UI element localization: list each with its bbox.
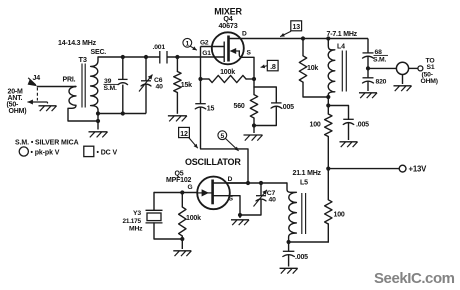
transistor Q4 channel bar (227, 36, 230, 62)
ground under Q5 source (231, 219, 249, 221)
svg-text:100k: 100k (186, 215, 201, 222)
svg-text:SeekIC.com: SeekIC.com (374, 270, 455, 287)
wire G2 lead (201, 46, 225, 48)
ground under T3 (89, 131, 108, 133)
node L5 bottom (287, 240, 291, 244)
wire 68 to junction (367, 57, 369, 69)
terminal +13V (399, 165, 406, 172)
svg-text:+13V: +13V (409, 165, 428, 174)
ground at J4 (47, 102, 49, 104)
wire jack to tip (409, 67, 418, 69)
connector J4 shield dashed line (36, 88, 38, 101)
svg-text:• pk-pk V: • pk-pk V (31, 150, 60, 157)
legend DC symbol (84, 146, 94, 156)
wire gate rail (154, 192, 197, 194)
node marker .8 boxed (267, 60, 278, 70)
ground under 820 (359, 92, 377, 94)
transistor Q5 body (197, 177, 230, 210)
wire C7 top lead (260, 183, 262, 196)
svg-text:40673: 40673 (219, 21, 238, 30)
inductor L5 (287, 183, 296, 242)
wire bias to ground (253, 126, 255, 134)
wire crystal bottom lead (154, 223, 182, 239)
svg-text:J4: J4 (33, 75, 41, 82)
svg-text:1: 1 (186, 41, 190, 48)
node T3 secondary bottom (96, 111, 100, 115)
svg-text:5: 5 (221, 133, 225, 140)
transistor Q5 channel bar (211, 180, 214, 205)
wire to ground osc (181, 239, 183, 249)
wire T3 bottom to ground (97, 114, 99, 130)
node L4 bottom (326, 95, 330, 99)
transistor Q5 drain lead (213, 182, 248, 184)
resistor 100k mixer (209, 75, 246, 82)
svg-text:39: 39 (104, 78, 112, 85)
transformer T3 primary winding (68, 86, 98, 121)
node bias bottom (252, 123, 256, 127)
wire Q5 source to ground (239, 215, 241, 218)
wire injection column lower (201, 107, 249, 183)
resistor 100k osc (181, 193, 183, 208)
transformer L4 core (341, 51, 343, 92)
wire C6 bottom lead (145, 84, 147, 113)
svg-text:OHM): OHM) (9, 108, 27, 115)
node 15k top (175, 55, 179, 59)
node 39 cap bottom (121, 111, 125, 115)
wire L5 bottom rail (289, 241, 329, 243)
wire secondary top rail (98, 56, 160, 58)
transistor Q5 gate arrow (197, 192, 212, 194)
wire 13V rail (328, 168, 399, 170)
node injection takeoff (246, 181, 250, 185)
capacitor C6 40 variable (141, 80, 151, 82)
node marker 12 boxed (179, 127, 190, 137)
svg-text:MPF102: MPF102 (166, 177, 192, 184)
svg-text:.005: .005 (281, 104, 294, 111)
svg-text:7-7.1 MHz: 7-7.1 MHz (327, 31, 358, 38)
node crystal bottom junction (180, 237, 184, 241)
transistor Q4 body (212, 32, 244, 64)
node mixer source junction (252, 77, 256, 81)
svg-text:.005: .005 (356, 121, 369, 128)
svg-text:L5: L5 (300, 180, 308, 187)
ground under L5 bypass (280, 267, 298, 269)
svg-text:820: 820 (376, 78, 387, 85)
svg-text:G1: G1 (202, 50, 211, 57)
resistor 10k (302, 39, 304, 56)
wire rail corner to 68 (367, 39, 369, 53)
node output junction (366, 66, 370, 70)
connector output jack (396, 62, 408, 74)
node Q5 source ground junction (238, 213, 242, 217)
wire .005 osc to ground (288, 255, 290, 267)
svg-text:S.M.: S.M. (373, 56, 386, 63)
resistor 15k (176, 57, 178, 72)
svg-text:S1: S1 (427, 64, 435, 71)
wire L5 bypass lead (288, 242, 290, 251)
node 100k left (198, 77, 202, 81)
svg-text:OSCILLATOR: OSCILLATOR (185, 157, 241, 167)
wire .005 supply to ground (348, 123, 350, 140)
connector J4 plug arrow (28, 78, 36, 85)
capacitor .001 (159, 51, 161, 64)
svg-text:15k: 15k (181, 82, 192, 89)
transistor Q4 source arrow (233, 50, 240, 52)
ground under .005 supply (339, 141, 357, 143)
wire tank bottom rail (98, 113, 146, 115)
svg-text:40: 40 (269, 196, 277, 203)
wire 39 cap bottom lead (122, 85, 124, 114)
connector J4 shield arrow (28, 101, 48, 103)
capacitor .005 mixer (271, 102, 282, 104)
wire bias top branch (254, 87, 276, 103)
svg-text:12: 12 (180, 131, 188, 138)
svg-text:100: 100 (334, 212, 345, 219)
capacitor C7 40 variable (256, 195, 266, 197)
node 13V junction (326, 167, 330, 171)
svg-text:15: 15 (207, 105, 215, 112)
wire crystal top lead (153, 193, 155, 211)
svg-text:S.M.: S.M. (104, 85, 117, 92)
ground under jack (393, 85, 411, 87)
node marker 13 boxed (291, 21, 302, 31)
resistor 100 upper (327, 97, 329, 114)
svg-text:OHM): OHM) (421, 78, 438, 85)
node marker 5 circled (218, 131, 227, 140)
svg-text:100k: 100k (220, 69, 235, 76)
svg-text:.005: .005 (295, 254, 308, 261)
wire junction to 820 (367, 68, 369, 77)
wire source column (253, 57, 255, 94)
svg-text:21.175: 21.175 (123, 218, 142, 225)
svg-text:MHz: MHz (129, 226, 143, 233)
capacitor 15 (195, 103, 206, 105)
svg-text:G2: G2 (200, 39, 209, 46)
wire output to jack (368, 67, 396, 69)
svg-text:14-14.3 MHz: 14-14.3 MHz (58, 40, 97, 47)
svg-text:• DC V: • DC V (97, 150, 118, 157)
wire .005 bottom lead (254, 107, 276, 126)
node 10k top (301, 36, 305, 40)
svg-text:Y3: Y3 (133, 210, 141, 217)
svg-text:10k: 10k (307, 65, 318, 72)
node marker 1 circled (183, 38, 192, 47)
node L4 top (326, 36, 330, 40)
svg-text:560: 560 (234, 103, 245, 110)
terminal output tip (418, 66, 423, 71)
capacitor .005 supply (343, 118, 354, 120)
transformer T3 secondary winding (91, 57, 98, 114)
transistor Q5 source lead (213, 196, 240, 215)
wire rail .001 to G1 (167, 56, 224, 58)
svg-text:G: G (188, 184, 193, 191)
svg-text:D: D (228, 176, 233, 183)
capacitor 39 S.M. (118, 78, 128, 80)
wire branch to .005 (328, 106, 348, 120)
svg-text:.001: .001 (153, 44, 166, 51)
inductor L4 (328, 39, 335, 98)
transformer T3 core (81, 64, 83, 108)
crystal Y3 (146, 209, 163, 211)
svg-text:T3: T3 (79, 55, 87, 64)
node C6 top (144, 55, 148, 59)
wire 39 cap top lead (122, 57, 124, 79)
node decoupling branch (326, 103, 330, 107)
svg-text:PRI.: PRI. (63, 77, 76, 84)
wire 560 bottom lead (253, 118, 255, 126)
wire C6 top lead (145, 57, 147, 81)
legend pk-pk symbol (19, 147, 28, 156)
wire jack sleeve to ground (402, 75, 404, 85)
transformer L5 core (301, 193, 303, 234)
wire antenna to T3 primary (37, 86, 76, 88)
transistor Q4 gate bar (223, 42, 225, 63)
svg-text:L4: L4 (337, 44, 345, 51)
svg-text:D: D (242, 30, 247, 37)
wire drain rail (230, 38, 369, 40)
svg-text:.8: .8 (270, 62, 276, 71)
svg-text:SEC.: SEC. (91, 49, 107, 56)
capacitor 68 S.M. (363, 52, 374, 54)
svg-text:21.1 MHz: 21.1 MHz (293, 170, 322, 177)
resistor 100 lower (327, 169, 329, 200)
capacitor 820 (363, 77, 374, 79)
capacitor .005 osc (283, 250, 295, 252)
svg-text:40: 40 (156, 84, 164, 91)
wire G2 column upper (200, 47, 202, 104)
wire oscillator drain rail (227, 182, 288, 184)
ground under 15k (168, 115, 187, 117)
wire 820 to ground (367, 81, 369, 91)
wire C7 bottom lead (240, 199, 261, 215)
svg-text:S.M. • SILVER MICA: S.M. • SILVER MICA (15, 139, 79, 146)
svg-text:13: 13 (293, 24, 301, 31)
resistor 560 (250, 95, 257, 118)
ground under 560 (244, 134, 263, 136)
node 39 cap top (121, 55, 125, 59)
node C7 top (259, 181, 263, 185)
svg-text:100: 100 (310, 121, 321, 128)
node T3 primary bottom (96, 119, 100, 123)
node gate junction (180, 190, 184, 194)
ground under oscillator (173, 250, 191, 252)
